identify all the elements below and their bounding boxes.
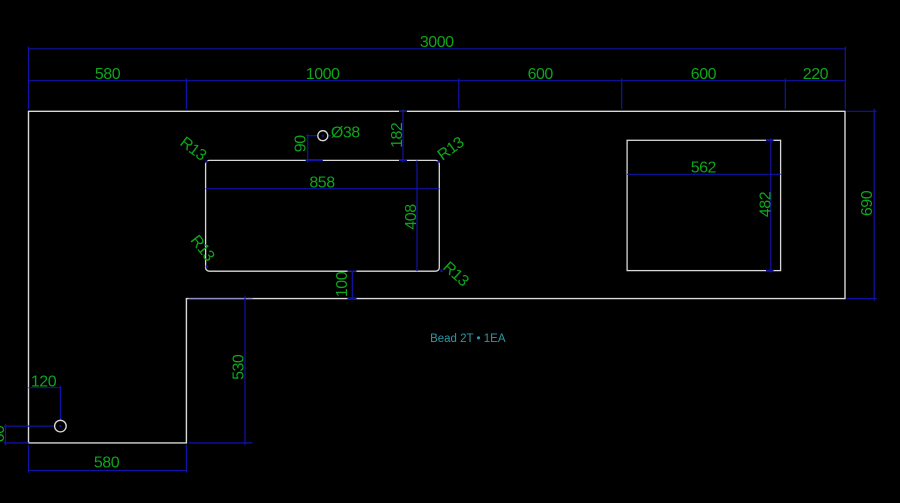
dim 60 extension to outline corner xyxy=(4,442,29,444)
svg-text:580: 580 xyxy=(95,66,121,83)
svg-text:182: 182 xyxy=(389,122,406,148)
dim 90 extension at circle height xyxy=(306,135,318,137)
sink cutout xyxy=(206,160,440,271)
svg-text:R13: R13 xyxy=(177,134,210,165)
svg-text:408: 408 xyxy=(403,204,420,230)
svg-text:R13: R13 xyxy=(187,232,218,265)
dim 90: dim line xyxy=(307,134,309,163)
dim 182 tick bottom xyxy=(399,159,407,161)
dim 690 extension top xyxy=(847,110,877,112)
dim 530 extension top xyxy=(188,297,252,299)
svg-text:530: 530 xyxy=(230,354,247,380)
dim line 3000 xyxy=(29,48,846,50)
dim 100: dim line xyxy=(351,271,353,298)
dim 182 tick top xyxy=(399,110,407,112)
extension line left x=28.5 xyxy=(28,47,30,110)
svg-text:60: 60 xyxy=(0,425,8,442)
dim 690 right: dim line xyxy=(873,109,875,301)
svg-text:120: 120 xyxy=(31,373,57,390)
faucet hole leader line xyxy=(328,135,331,137)
R13 leader dot top-left xyxy=(205,161,207,163)
svg-text:R13: R13 xyxy=(435,134,468,164)
hole center dot bottom-left xyxy=(59,425,61,427)
svg-text:100: 100 xyxy=(334,271,351,297)
svg-text:858: 858 xyxy=(309,174,335,191)
dim 100 extension top xyxy=(348,270,357,272)
hole circle bottom-left xyxy=(55,420,67,432)
svg-text:220: 220 xyxy=(803,66,829,83)
svg-text:690: 690 xyxy=(859,190,876,216)
extension line x=186.4 xyxy=(185,79,187,110)
dim 120 extension down to circle xyxy=(59,386,61,421)
dim 182: dim line xyxy=(402,109,404,162)
dim 100 extension bottom xyxy=(348,298,357,300)
dim 60 extension to circle center xyxy=(4,425,55,427)
dim 580 bottom: dim line xyxy=(29,470,187,472)
svg-text:R13: R13 xyxy=(439,259,472,291)
R13 leader dot top-right xyxy=(438,160,440,162)
dim line row 580/1000/600/600/220 xyxy=(29,80,846,82)
dim 60: dim line at left edge xyxy=(5,424,7,445)
dim 580 bottom extension left xyxy=(28,445,30,473)
dim 482 extension bottom xyxy=(766,270,774,272)
dim 90 extension on sink top xyxy=(306,159,323,161)
svg-text:562: 562 xyxy=(691,160,717,177)
R13 leader dot bottom-left xyxy=(206,265,208,267)
faucet hole center dot xyxy=(322,135,324,137)
dim 482: dim line xyxy=(770,138,772,272)
extension line x=621.7 xyxy=(621,79,623,110)
svg-text:Bead 2T • 1EA: Bead 2T • 1EA xyxy=(430,333,506,345)
dim 120: dim line xyxy=(29,387,61,389)
extension line x=458.8 xyxy=(458,79,460,110)
dim 482 extension top xyxy=(766,139,774,141)
svg-text:90: 90 xyxy=(292,135,309,152)
extension line right x=845.3 xyxy=(844,47,846,110)
extension line x=785.3 xyxy=(784,79,786,110)
R13 leader dot bottom-right xyxy=(440,270,442,272)
svg-text:482: 482 xyxy=(757,191,774,217)
svg-text:Ø38: Ø38 xyxy=(331,125,360,142)
countertop outline xyxy=(29,111,846,443)
dim 562: dim line xyxy=(627,173,781,175)
svg-text:600: 600 xyxy=(691,66,717,83)
svg-text:1000: 1000 xyxy=(306,66,340,83)
dim 690 extension bottom xyxy=(847,298,877,300)
svg-text:580: 580 xyxy=(94,455,120,472)
cooktop cutout xyxy=(627,140,781,270)
dim 858: dim line xyxy=(206,188,440,190)
svg-text:600: 600 xyxy=(528,66,554,83)
dim 530: dim line xyxy=(244,296,246,445)
dim 530 extension bottom xyxy=(188,442,252,444)
faucet hole circle xyxy=(318,131,328,141)
dim 580 bottom extension right xyxy=(185,445,187,473)
svg-text:3000: 3000 xyxy=(420,34,454,51)
dim 408: dim line xyxy=(416,160,418,271)
